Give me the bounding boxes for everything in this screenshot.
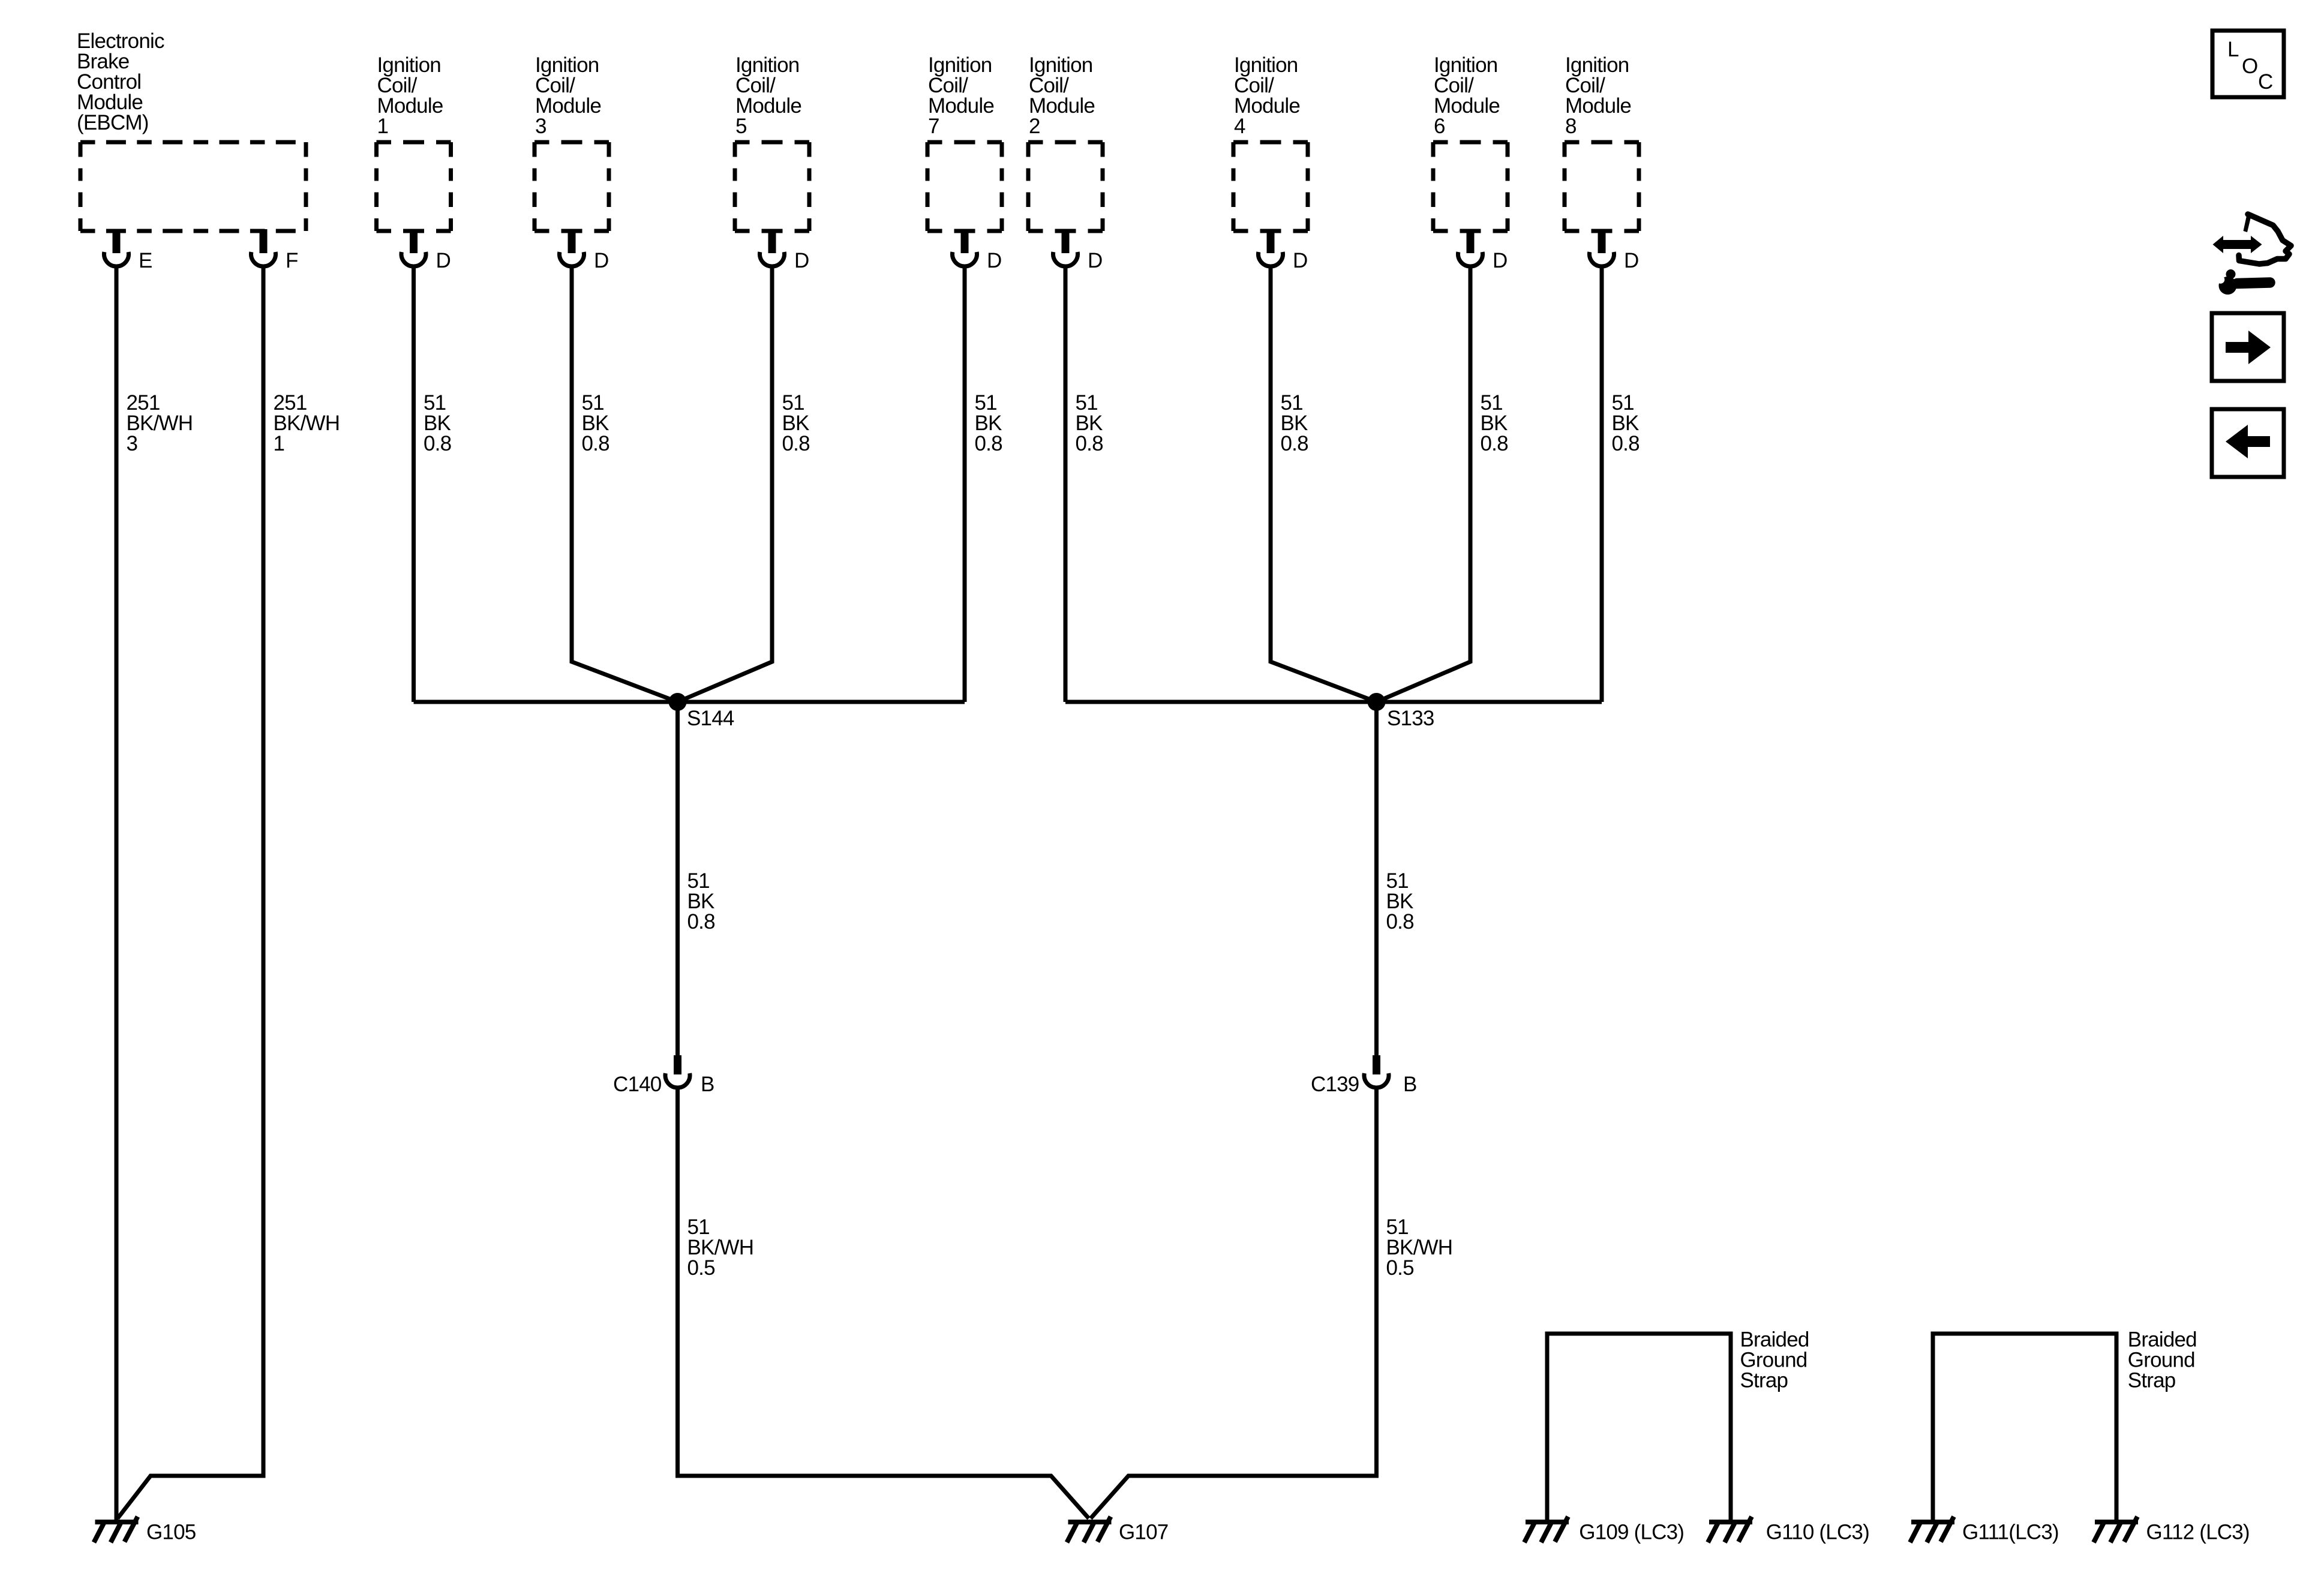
svg-text:1: 1 [274, 432, 285, 455]
ground G109 [1524, 1517, 1569, 1542]
ignition coil/module 4 label [1234, 53, 1300, 138]
wire label 51 BK 0.8 (splice leg) [1386, 869, 1414, 933]
wire label 251 BK/WH 3 [127, 391, 193, 455]
ignition coil/module 1 label [377, 53, 443, 138]
wire bus S144 horizontal [414, 700, 965, 704]
svg-text:7: 7 [928, 115, 939, 138]
wire coil 5 to S144 [678, 268, 773, 702]
svg-text:B: B [1403, 1073, 1417, 1096]
wire label 51 BK 0.8 (coil 4) [1281, 391, 1308, 455]
svg-text:G109 (LC3): G109 (LC3) [1579, 1521, 1684, 1544]
svg-text:4: 4 [1234, 115, 1245, 138]
connector C139 pin B [1311, 1055, 1417, 1096]
svg-text:G111(LC3): G111(LC3) [1962, 1521, 2059, 1544]
svg-text:0.5: 0.5 [1386, 1256, 1414, 1280]
ignition coil/module 7 label [928, 53, 994, 138]
svg-text:1: 1 [377, 115, 389, 138]
svg-text:6: 6 [1434, 115, 1445, 138]
ignition coil/module 3 box [535, 142, 609, 231]
svg-text:0.8: 0.8 [975, 432, 1002, 455]
splice S133 [1368, 693, 1434, 730]
svg-text:G105: G105 [146, 1521, 196, 1544]
connector C140 pin B [613, 1055, 714, 1096]
wire coil 4 to S133 [1271, 268, 1377, 702]
svg-text:0.8: 0.8 [424, 432, 451, 455]
svg-text:G112 (LC3): G112 (LC3) [2146, 1521, 2250, 1544]
ignition coil/module 8 box [1565, 142, 1639, 231]
wire coil 2 to S133 [1064, 268, 1068, 702]
svg-text:G107: G107 [1119, 1521, 1168, 1544]
svg-text:0.8: 0.8 [782, 432, 810, 455]
braided ground strap 2 (G111-G112) [1933, 1334, 2116, 1520]
wire label 51 BK 0.8 (coil 2) [1076, 391, 1103, 455]
wire coil 6 to S133 [1377, 268, 1471, 702]
module EBCM box [80, 142, 306, 231]
ignition coil/module 8 label [1565, 53, 1631, 138]
svg-text:S133: S133 [1387, 707, 1434, 730]
svg-text:Strap: Strap [2128, 1369, 2176, 1392]
svg-text:3: 3 [127, 432, 138, 455]
wire EBCM E to G105 [115, 268, 119, 1520]
ignition coil/module 6 box [1433, 142, 1508, 231]
diagnostic icon: double arrow, connector body, wrench [2213, 213, 2292, 295]
connector pin E at x=194 [104, 229, 152, 272]
svg-text:8: 8 [1565, 115, 1577, 138]
wire label 51 BK/WH 0.5 [1386, 1215, 1453, 1280]
svg-text:D: D [594, 249, 608, 272]
wire label 51 BK 0.8 (coil 6) [1481, 391, 1508, 455]
connector pin D at x=2118 [1258, 229, 1307, 272]
braided ground strap 1 (G109-G110) [1547, 1334, 1731, 1520]
svg-text:D: D [436, 249, 451, 272]
ignition coil/module 6 label [1434, 53, 1500, 138]
svg-text:D: D [1293, 249, 1307, 272]
svg-text:0.8: 0.8 [1612, 432, 1640, 455]
next page arrow box [2212, 313, 2284, 381]
svg-text:C: C [2258, 70, 2272, 94]
connector pin D at x=1608 [953, 229, 1002, 272]
connector pin D at x=953 [560, 229, 609, 272]
wire label 51 BK 0.8 (coil 8) [1612, 391, 1640, 455]
splice S144 [669, 693, 734, 730]
svg-text:2: 2 [1029, 115, 1040, 138]
svg-text:C140: C140 [613, 1073, 662, 1096]
ground G111 [1910, 1517, 1954, 1542]
wire EBCM F to G105 [118, 268, 263, 1518]
svg-text:G110 (LC3): G110 (LC3) [1766, 1521, 1869, 1544]
wire coil 3 to S144 [572, 268, 678, 702]
svg-text:F: F [286, 249, 298, 272]
wire label 251 BK/WH 1 [274, 391, 340, 455]
svg-text:Strap: Strap [1740, 1369, 1788, 1392]
svg-text:5: 5 [735, 115, 747, 138]
wire label 51 BK/WH 0.5 [687, 1215, 754, 1280]
svg-text:0.8: 0.8 [1281, 432, 1308, 455]
wire label 51 BK 0.8 (coil 5) [782, 391, 810, 455]
connector pin D at x=1776 [1053, 229, 1102, 272]
wire S144 to C140 [675, 702, 680, 1055]
connector pin D at x=690 [401, 229, 451, 272]
wire label 51 BK 0.8 (coil 3) [582, 391, 609, 455]
svg-text:D: D [1624, 249, 1638, 272]
ignition coil/module 3 label [535, 53, 601, 138]
svg-text:D: D [987, 249, 1001, 272]
svg-text:0.8: 0.8 [1386, 910, 1414, 933]
svg-text:0.5: 0.5 [687, 1256, 715, 1280]
svg-text:D: D [1088, 249, 1102, 272]
ignition coil/module 2 box [1028, 142, 1103, 231]
ground G112 [2094, 1517, 2138, 1542]
wire C140 to G107 [678, 1089, 1089, 1518]
svg-text:0.8: 0.8 [582, 432, 609, 455]
ignition coil/module 4 box [1233, 142, 1308, 231]
braided ground strap 1 label [1740, 1328, 1809, 1392]
ground G105 [94, 1517, 139, 1542]
ignition coil/module 5 box [735, 142, 809, 231]
svg-text:D: D [1493, 249, 1507, 272]
wire label 51 BK 0.8 (coil 7) [975, 391, 1002, 455]
svg-text:B: B [701, 1073, 714, 1096]
ground G110 [1708, 1517, 1752, 1542]
svg-text:C139: C139 [1311, 1073, 1359, 1096]
svg-text:D: D [794, 249, 809, 272]
connector pin F at x=439 [251, 229, 298, 272]
svg-text:L: L [2227, 38, 2239, 61]
braided ground strap 2 label [2128, 1328, 2197, 1392]
wire label 51 BK 0.8 (coil 1) [424, 391, 451, 455]
ignition coil/module 1 box [377, 142, 451, 231]
wire C139 to G107 [1091, 1089, 1377, 1518]
svg-text:0.8: 0.8 [1481, 432, 1508, 455]
wire coil 7 to S144 [963, 268, 967, 702]
ignition coil/module 5 label [735, 53, 801, 138]
connector pin D at x=1287 [760, 229, 809, 272]
wire bus S133 horizontal [1065, 700, 1602, 704]
ignition coil/module 2 label [1029, 53, 1095, 138]
connector pin D at x=2451 [1458, 229, 1508, 272]
svg-text:0.8: 0.8 [1076, 432, 1103, 455]
ground G107 [1067, 1517, 1112, 1542]
wire coil 8 to S133 [1600, 268, 1604, 702]
svg-text:O: O [2242, 55, 2257, 78]
wire label 51 BK 0.8 (splice leg) [687, 869, 715, 933]
svg-text:3: 3 [535, 115, 547, 138]
svg-text:0.8: 0.8 [687, 910, 715, 933]
connector pin D at x=2670 [1590, 229, 1639, 272]
wire coil 1 to S144 [412, 268, 416, 702]
module EBCM label [77, 29, 164, 134]
previous page arrow box [2212, 409, 2284, 477]
svg-text:E: E [139, 249, 152, 272]
wire S133 to C139 [1374, 702, 1379, 1055]
svg-text:S144: S144 [687, 707, 734, 730]
LOC reference box [2212, 31, 2284, 97]
svg-text:(EBCM): (EBCM) [77, 111, 149, 134]
ignition coil/module 7 box [927, 142, 1002, 231]
